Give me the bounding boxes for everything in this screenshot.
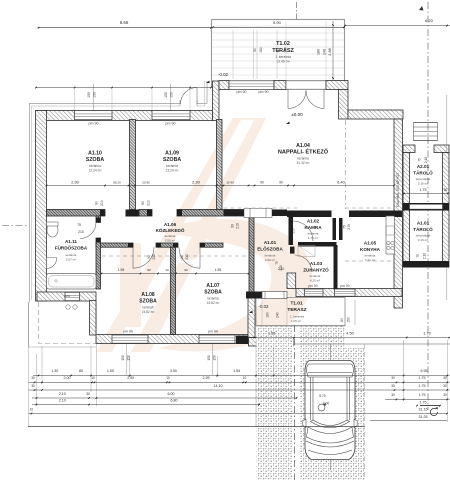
french door opening (286, 81, 326, 89)
wall left exterior vertical (36, 111, 47, 302)
wall zuhanyzo left (290, 247, 295, 254)
svg-text:150: 150 (164, 92, 168, 98)
svg-text:10: 10 (166, 376, 170, 380)
svg-text:31.25: 31.25 (419, 415, 428, 419)
svg-text:A1.09: A1.09 (165, 151, 179, 157)
svg-text:1.75: 1.75 (420, 400, 427, 404)
svg-text:31.32 m²: 31.32 m² (296, 161, 310, 165)
svg-text:4.50: 4.50 (346, 331, 353, 335)
svg-text:SZOBA: SZOBA (139, 299, 157, 305)
svg-text:4.20 m²: 4.20 m² (310, 279, 320, 283)
svg-text:30: 30 (391, 376, 395, 380)
wall corridor bottom (96, 243, 133, 247)
svg-text:kerámia: kerámia (297, 157, 309, 161)
svg-text:2.30: 2.30 (71, 179, 80, 184)
svg-text:150: 150 (284, 47, 288, 53)
wall bathroom right vertical (96, 216, 101, 223)
svg-text:2.10: 2.10 (59, 398, 66, 402)
svg-text:30: 30 (443, 376, 447, 380)
svg-text:kerámia: kerámia (365, 254, 376, 258)
storage bottom wall (403, 261, 449, 268)
svg-text:150: 150 (347, 317, 351, 323)
svg-text:pm 90: pm 90 (259, 90, 269, 94)
svg-text:KAMRA: KAMRA (304, 225, 322, 230)
svg-text:90: 90 (279, 180, 283, 184)
wall between A1.08 and A1.07 (171, 247, 176, 334)
dim row G y420.5 (370, 420, 447, 422)
svg-text:A1.05: A1.05 (364, 241, 377, 246)
svg-text:90: 90 (253, 48, 257, 52)
wall top-left exterior (36, 111, 213, 121)
window pm50 bathroom (65, 292, 80, 300)
dim row D right (385, 398, 449, 400)
svg-text:10: 10 (91, 376, 95, 380)
long bottom line y426 (28, 426, 365, 428)
svg-text:13.24 m²: 13.24 m² (165, 169, 179, 173)
svg-text:±0.00: ±0.00 (291, 112, 303, 117)
svg-text:150: 150 (213, 355, 217, 361)
svg-text:A2.01: A2.01 (417, 164, 430, 169)
svg-text:90: 90 (260, 180, 264, 184)
wall kamra top right piece (349, 211, 402, 218)
svg-text:pm 90: pm 90 (166, 122, 176, 126)
bathtub (47, 274, 97, 290)
toilet (47, 223, 58, 237)
kamra door arc (293, 221, 313, 241)
svg-text:5.07 m²: 5.07 m² (66, 258, 76, 262)
svg-text:90: 90 (277, 48, 281, 52)
wall between A1.09 and NAPPALI (217, 120, 223, 210)
svg-text:30: 30 (391, 393, 395, 397)
paving dotted area center (301, 326, 346, 480)
svg-text:kerámia: kerámia (166, 164, 178, 168)
car centerline (330, 344, 332, 361)
svg-text:6.66: 6.66 (120, 20, 129, 25)
svg-text:60: 60 (340, 318, 344, 322)
terrace window dims 90 150 (232, 30, 234, 79)
svg-text:1.05 m²: 1.05 m² (291, 319, 301, 323)
wall corner top right descending (339, 90, 349, 120)
svg-text:betonaljzat: betonaljzat (416, 234, 431, 238)
svg-text:TERASZ: TERASZ (287, 307, 306, 313)
svg-text:1.75: 1.75 (419, 376, 426, 380)
svg-text:1. kerámia: 1. kerámia (275, 55, 291, 59)
paving dotted area right (343, 347, 365, 480)
section line left horizontal (2, 225, 29, 227)
wall T1.01 left vertical (248, 298, 255, 338)
svg-text:240: 240 (276, 312, 280, 318)
svg-text:180: 180 (317, 49, 321, 55)
wall NAPPALI bottom / eloszoba top (224, 210, 245, 217)
svg-text:pm 90: pm 90 (89, 122, 99, 126)
svg-text:kerámia: kerámia (207, 297, 219, 301)
svg-text:-0.02: -0.02 (218, 72, 229, 77)
eloszoba big door (262, 291, 287, 298)
svg-text:A1.08: A1.08 (141, 292, 155, 298)
svg-text:210: 210 (347, 224, 351, 230)
wall corner black at T1.01 (246, 292, 262, 299)
svg-text:1.55: 1.55 (107, 369, 114, 373)
svg-text:90: 90 (147, 255, 151, 259)
dim line under house y337 (254, 337, 449, 339)
svg-text:laminált: laminált (143, 306, 154, 310)
svg-text:kerámia: kerámia (66, 253, 77, 257)
svg-text:5.90: 5.90 (273, 20, 282, 25)
svg-text:2.10: 2.10 (278, 267, 285, 271)
svg-text:6.00: 6.00 (168, 392, 175, 396)
svg-text:3.50: 3.50 (170, 369, 177, 373)
svg-text:30: 30 (86, 392, 90, 396)
svg-text:pm 90: pm 90 (340, 284, 349, 288)
svg-text:75: 75 (416, 254, 420, 258)
dashed line nappali (224, 207, 301, 209)
svg-text:6.95: 6.95 (421, 369, 428, 373)
dim row F y413.5 (29, 413, 448, 415)
terrace T1.01 floor outline (256, 298, 345, 326)
svg-text:210: 210 (78, 230, 84, 234)
svg-text:2.90: 2.90 (127, 376, 134, 380)
window pm90 A1.10 (75, 111, 113, 120)
svg-text:150: 150 (127, 355, 131, 361)
patio dashed outline below bathroom (29, 302, 97, 347)
wall right of french door (326, 81, 348, 90)
svg-text:90: 90 (141, 201, 145, 205)
french door arcs (287, 90, 289, 109)
svg-text:1.55: 1.55 (268, 331, 275, 335)
svg-text:20 90: 20 90 (142, 180, 150, 184)
svg-text:1.30: 1.30 (51, 369, 58, 373)
dim line under top windows (36, 87, 211, 89)
dim row C y390 (29, 389, 450, 391)
svg-text:30: 30 (443, 393, 447, 397)
wall T1.01 bottom (249, 338, 294, 347)
svg-text:kerámia: kerámia (308, 232, 319, 236)
svg-text:T1.02: T1.02 (276, 41, 290, 47)
paving right dashed edge (364, 344, 366, 480)
interior dim line bedrooms y273.5 (102, 273, 249, 275)
svg-text:A1.02: A1.02 (307, 219, 320, 224)
svg-text:210: 210 (292, 228, 296, 233)
svg-text:kerámia: kerámia (265, 254, 276, 258)
pillar black bottom (236, 336, 255, 345)
svg-text:13.46 m²: 13.46 m² (276, 60, 290, 64)
svg-text:12.24 m²: 12.24 m² (88, 169, 102, 173)
storage top wall left piece (403, 145, 415, 153)
terrace right dim 2.88 (332, 21, 334, 80)
kitchen hob circles (387, 241, 390, 244)
window pm90 A1.09 (152, 111, 190, 120)
watermark logo (96, 118, 312, 352)
dim row A y375.5 (33, 375, 449, 377)
car top view (303, 361, 357, 460)
svg-text:90: 90 (180, 255, 184, 259)
door NAPPALI-ELOSZOBA (244, 208, 272, 217)
interior dimension line y185 (47, 185, 395, 187)
storage divider band (403, 203, 449, 211)
wall A1.10/A1.09 bottom (corridor top) (47, 210, 106, 217)
section line bottom parking (294, 325, 296, 480)
svg-text:150: 150 (259, 47, 263, 53)
window long below terrace pm90 pm90 (229, 81, 274, 90)
svg-text:-0.02: -0.02 (258, 304, 269, 309)
window pm90 A1.07 bottom (199, 335, 235, 343)
dimension 6.20 top right (345, 25, 450, 27)
svg-text:80: 80 (79, 369, 83, 373)
svg-text:31.15: 31.15 (419, 407, 428, 411)
svg-text:SZOBA: SZOBA (163, 157, 181, 163)
svg-text:pm 90: pm 90 (208, 330, 218, 334)
svg-text:2.95: 2.95 (203, 376, 210, 380)
svg-text:210: 210 (185, 254, 189, 260)
svg-text:10 90: 10 90 (226, 180, 234, 184)
svg-text:pm 90: pm 90 (308, 284, 317, 288)
svg-text:15.82 m²: 15.82 m² (207, 301, 220, 305)
svg-text:A1.06: A1.06 (164, 222, 177, 227)
window pm90 zuhanyzo (305, 289, 324, 296)
svg-text:1. kerámia: 1. kerámia (290, 315, 304, 319)
dashed line konyha (345, 260, 394, 262)
wall kamra right double (333, 218, 337, 240)
dim row E right short (420, 405, 440, 407)
svg-text:75: 75 (343, 225, 347, 229)
svg-text:A1.11: A1.11 (65, 239, 77, 244)
svg-text:3.16 m²: 3.16 m² (418, 238, 428, 242)
svg-text:4.99 m²: 4.99 m² (265, 258, 275, 262)
svg-text:5.50 m²: 5.50 m² (165, 239, 175, 243)
wall step below bathroom vertical (90, 301, 97, 336)
svg-text:A1.01: A1.01 (417, 221, 430, 226)
svg-text:150: 150 (207, 355, 211, 361)
bathroom door arc (80, 223, 96, 239)
svg-text:1.70: 1.70 (423, 331, 430, 335)
wall right exterior vertical (394, 119, 403, 308)
door in eaves line with arc (179, 100, 181, 106)
svg-text:KONYHA: KONYHA (360, 247, 381, 252)
svg-text:5.70: 5.70 (319, 394, 326, 398)
window pm90 A1.08 bottom (112, 335, 148, 343)
svg-text:150: 150 (87, 92, 91, 98)
door labels at bathroom bottom (66, 305, 70, 309)
svg-text:150: 150 (93, 92, 97, 98)
wall bathroom bottom (37, 292, 96, 301)
dim 1.75 storage (404, 193, 448, 195)
svg-text:1.75: 1.75 (419, 393, 426, 397)
svg-text:30: 30 (443, 384, 447, 388)
svg-text:30: 30 (391, 384, 395, 388)
wall terrace step vertical (213, 81, 220, 121)
svg-text:10: 10 (30, 407, 34, 411)
storage left wall (403, 153, 410, 268)
window edge extension lines top (74, 88, 76, 111)
svg-text:1.95: 1.95 (215, 268, 222, 272)
svg-text:kerámia: kerámia (310, 274, 321, 278)
door extension lines T1.01 (261, 299, 263, 325)
paving top edge line (293, 343, 450, 345)
svg-text:betonaljzat: betonaljzat (416, 177, 431, 181)
svg-text:90: 90 (95, 201, 99, 205)
svg-text:1.55: 1.55 (233, 369, 240, 373)
svg-text:1.75: 1.75 (419, 384, 426, 388)
wall kitchen-zuhanyzo bottom (296, 289, 402, 297)
storage top wall right piece (434, 145, 449, 153)
svg-text:30: 30 (31, 384, 35, 388)
kitchen counter (386, 216, 395, 254)
svg-text:90: 90 (184, 268, 188, 272)
svg-text:10: 10 (165, 268, 169, 272)
svg-text:15.82 m²: 15.82 m² (142, 310, 155, 314)
wall A1.07 right / eloszoba left (249, 217, 254, 299)
door arc corridor to A1.08 (132, 247, 134, 268)
svg-text:210: 210 (152, 254, 156, 260)
svg-text:90 20: 90 20 (113, 180, 121, 184)
dim row D y398 (32, 397, 297, 399)
svg-text:10: 10 (243, 376, 247, 380)
wall kamra bottom (298, 242, 337, 247)
svg-text:SZOBA: SZOBA (86, 157, 104, 163)
svg-text:2.10: 2.10 (423, 253, 427, 259)
kitchen sink (386, 226, 395, 235)
svg-text:A1.10: A1.10 (88, 151, 102, 157)
svg-text:90: 90 (147, 268, 151, 272)
eaves outline left and top (30, 103, 181, 302)
dimension 5.90 terrace (213, 26, 344, 28)
svg-text:pm 90: pm 90 (237, 90, 247, 94)
svg-text:FÜRDŐSZOBA: FÜRDŐSZOBA (55, 245, 88, 251)
dimension 6.66 top left (39, 27, 212, 29)
svg-text:210: 210 (147, 200, 151, 206)
sink (47, 258, 57, 269)
svg-text:210: 210 (236, 223, 240, 229)
wall zuhanyzo left lower hatched (287, 273, 296, 289)
small marker top right (419, 6, 424, 11)
svg-text:2.10: 2.10 (424, 157, 428, 163)
svg-text:6.80: 6.80 (171, 398, 178, 402)
svg-text:SZOBA: SZOBA (204, 290, 222, 296)
svg-text:160: 160 (266, 312, 270, 318)
svg-text:90: 90 (231, 224, 235, 228)
svg-text:150: 150 (170, 92, 174, 98)
svg-text:14.10: 14.10 (214, 384, 223, 388)
svg-text:1.95: 1.95 (118, 268, 125, 272)
section line right vertical (427, 2, 429, 410)
svg-text:ZUHANYZÓ: ZUHANYZÓ (303, 266, 329, 273)
storage right wall (443, 153, 450, 268)
svg-text:30: 30 (31, 376, 35, 380)
terrace T1.02 outline (212, 20, 345, 88)
svg-text:30: 30 (444, 188, 448, 192)
wall kamra left vertical (289, 217, 294, 245)
svg-text:2.30: 2.30 (192, 179, 201, 184)
svg-text:6.20: 6.20 (425, 18, 434, 23)
wall kamra top (287, 211, 332, 218)
svg-text:T1.01: T1.01 (290, 301, 303, 307)
svg-text:2.10: 2.10 (59, 392, 66, 396)
svg-text:6.40: 6.40 (337, 179, 346, 184)
svg-text:210: 210 (100, 200, 104, 206)
rotation circle arrow (430, 408, 437, 415)
wall zuhanyzo right / konyha left (334, 245, 338, 289)
svg-text:1.75 m²: 1.75 m² (308, 236, 318, 240)
svg-text:NAPPALI- ÉTKEZŐ: NAPPALI- ÉTKEZŐ (278, 148, 329, 156)
svg-text:kerámia: kerámia (165, 234, 176, 238)
svg-text:75: 75 (77, 223, 81, 227)
dashed line across bedrooms (102, 255, 248, 257)
svg-text:1.75: 1.75 (420, 188, 427, 192)
terrace door edge extension lines (285, 21, 287, 79)
vertical extension lines bottom (28, 302, 30, 427)
door arc corridor to A1.07 (199, 247, 201, 268)
svg-text:TÁROLÓ: TÁROLÓ (413, 225, 433, 232)
svg-text:A1.01: A1.01 (264, 240, 277, 245)
svg-text:TÁROLÓ: TÁROLÓ (413, 169, 433, 176)
svg-text:75: 75 (418, 158, 422, 162)
svg-text:ELŐSZOBA: ELŐSZOBA (257, 246, 283, 252)
svg-text:2.00: 2.00 (64, 376, 71, 380)
svg-text:7.32 m²: 7.32 m² (365, 258, 375, 262)
shower tray (298, 246, 315, 257)
svg-text:2.88: 2.88 (328, 48, 332, 55)
zuhanyzo door arc (295, 255, 312, 272)
wall below terrace (219, 81, 229, 90)
svg-text:A1.04: A1.04 (296, 143, 310, 149)
right edge thin line (446, 95, 448, 152)
svg-text:pm 90: pm 90 (123, 330, 133, 334)
steps exterior (414, 123, 438, 141)
paving dotted area left strip (257, 326, 294, 480)
window pm90 konyha (335, 289, 356, 296)
wall bottom main (96, 335, 249, 344)
wall pier below terrace (274, 81, 286, 90)
svg-text:75: 75 (288, 224, 292, 228)
wall eloszoba top right to kamra (272, 210, 287, 217)
dim row B y382.4 (29, 381, 450, 383)
section line top (296, 2, 298, 19)
wall between A1.10 and A1.09 (130, 120, 136, 210)
svg-text:Sika HML 300 NF+GT: Sika HML 300 NF+GT (396, 172, 400, 207)
svg-text:kerámia: kerámia (89, 164, 101, 168)
svg-text:150: 150 (121, 355, 125, 361)
svg-text:3.16 m²: 3.16 m² (418, 182, 428, 186)
svg-text:60/60: 60/60 (64, 294, 71, 298)
dim row E y404.5 (32, 404, 260, 406)
svg-text:A1.07: A1.07 (206, 283, 220, 289)
svg-text:A1.03: A1.03 (310, 261, 323, 266)
dashed boundary nappali-konyha (345, 120, 347, 209)
svg-text:75: 75 (275, 261, 279, 265)
svg-text:KÖZLEKEDŐ: KÖZLEKEDŐ (156, 227, 185, 233)
wall top right segment (348, 110, 403, 119)
